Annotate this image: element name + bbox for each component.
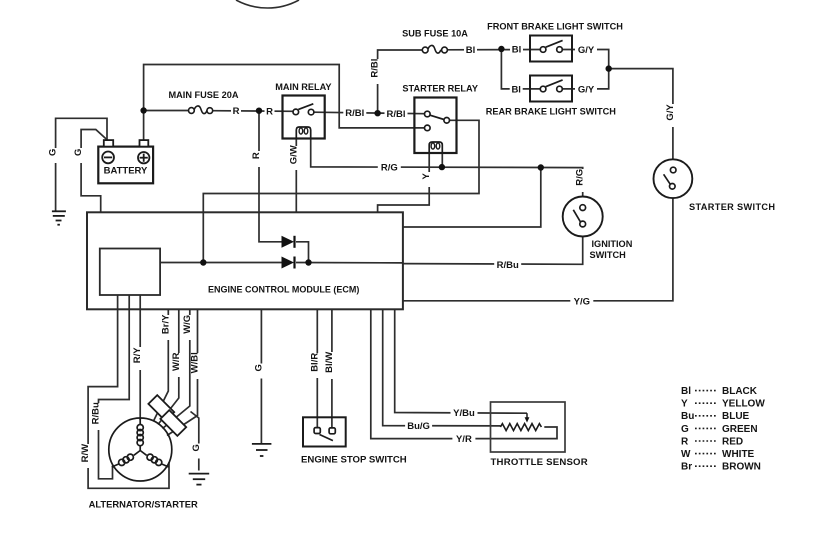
- label R/Y rotated: [132, 347, 146, 370]
- wire battery positive node down to battery terminal: [143, 111, 145, 141]
- svg-text:R/Bu: R/Bu: [497, 260, 519, 271]
- svg-text:R: R: [233, 106, 240, 117]
- label R/Bl left: [343, 107, 366, 119]
- switch FRONT BRAKE LIGHT SWITCH: [530, 36, 572, 62]
- wire R vertical from fuse node down into ECM to upper diode: [259, 111, 282, 242]
- svg-text:G: G: [681, 424, 689, 435]
- node diode output junction: [305, 259, 311, 265]
- wire W/Bl ECM to alternator connector: [167, 310, 198, 436]
- svg-text:G/Y: G/Y: [665, 104, 676, 121]
- wire R/G junction down to ECM right edge: [403, 168, 541, 228]
- fuse MAIN FUSE 20A: [189, 106, 213, 114]
- wire lower diode output to R/Bu exit: [296, 262, 403, 264]
- svg-text:Br: Br: [681, 462, 692, 473]
- svg-text:Bl: Bl: [512, 45, 522, 56]
- label R on main line right: [265, 105, 275, 117]
- svg-text:BROWN: BROWN: [722, 462, 761, 473]
- wire Bl sub fuse to front brake light switch: [447, 49, 540, 51]
- svg-text:G: G: [191, 444, 202, 451]
- wire R/Bu inner box to alternator lower left: [99, 295, 130, 479]
- wire Bl/R ECM to engine stop switch: [316, 310, 318, 428]
- label W/Bl rotated: [190, 352, 204, 379]
- label Br/Y rotated: [160, 314, 174, 340]
- connector block to alternator (two halves): [148, 395, 186, 436]
- node battery positive junction: [140, 107, 146, 113]
- label W/R rotated: [171, 352, 185, 377]
- svg-text:R/Bl: R/Bl: [387, 109, 406, 120]
- label THROTTLE SENSOR: [491, 457, 588, 468]
- wire ECM diode line inside module: [160, 262, 281, 264]
- wire R main fuse to main relay: [213, 110, 294, 113]
- wire W/G ECM to alternator connector: [163, 310, 190, 429]
- switch IGNITION SWITCH: [563, 197, 603, 237]
- svg-text:Bu/G: Bu/G: [407, 421, 430, 432]
- svg-text:G: G: [73, 149, 84, 156]
- svg-text:ALTERNATOR/STARTER: ALTERNATOR/STARTER: [89, 499, 198, 510]
- ground G wire from ECM: [252, 444, 272, 456]
- svg-text:WHITE: WHITE: [722, 449, 755, 460]
- svg-text:MAIN FUSE 20A: MAIN FUSE 20A: [169, 90, 239, 100]
- svg-text:R/G: R/G: [381, 162, 398, 173]
- diode D2 lower in ECM: [282, 257, 295, 269]
- label MAIN FUSE 20A: [169, 90, 239, 100]
- wire Y starter relay coil to ECM top: [378, 153, 430, 212]
- label STARTER RELAY: [402, 83, 478, 93]
- sub-block inside ECM: [100, 249, 160, 296]
- svg-text:G/Y: G/Y: [578, 85, 595, 96]
- svg-text:FRONT BRAKE LIGHT SWITCH: FRONT BRAKE LIGHT SWITCH: [487, 22, 623, 32]
- wire battery positive node to main fuse: [144, 110, 189, 112]
- label Bu/G horizontal: [405, 420, 432, 432]
- svg-text:Bu: Bu: [681, 411, 694, 422]
- svg-text:IGNITION: IGNITION: [592, 239, 633, 249]
- svg-text:SUB FUSE 10A: SUB FUSE 10A: [402, 29, 468, 39]
- sensor THROTTLE SENSOR: [491, 402, 566, 452]
- label R/Bu horizontal: [494, 259, 521, 271]
- svg-text:Bl: Bl: [681, 386, 691, 397]
- node R/G junction to ignition branch: [538, 164, 544, 170]
- wire R/Y inner box to alternator top: [139, 295, 141, 420]
- label REAR BRAKE LIGHT SWITCH: [486, 107, 617, 117]
- wire Bl junction down to rear brake light switch: [501, 49, 540, 89]
- node Bl junction at brake switches: [498, 46, 504, 52]
- label ENGINE CONTROL MODULE (ECM): [208, 285, 359, 295]
- wire G/Y junction to starter switch: [609, 69, 673, 160]
- label G rotated battery ground wire: [48, 148, 62, 163]
- label STARTER SWITCH: [689, 202, 775, 212]
- label W/G rotated: [182, 315, 196, 340]
- svg-text:ENGINE STOP SWITCH: ENGINE STOP SWITCH: [301, 455, 407, 466]
- svg-text:GREEN: GREEN: [722, 424, 758, 435]
- wire upper diode output down to junction: [296, 242, 309, 263]
- diode D1 upper in ECM: [282, 236, 295, 248]
- label R/Bl right: [385, 108, 408, 120]
- wire R/W inner box to alternator underside: [88, 295, 169, 488]
- label G rotated connector ground: [191, 444, 205, 459]
- label ENGINE STOP SWITCH: [301, 455, 407, 466]
- label Y/R horizontal: [452, 433, 475, 445]
- svg-text:Y/Bu: Y/Bu: [453, 408, 475, 419]
- label Bl front switch: [510, 44, 523, 56]
- svg-text:BLACK: BLACK: [722, 386, 758, 397]
- svg-text:SWITCH: SWITCH: [590, 250, 627, 260]
- svg-text:R/W: R/W: [80, 444, 91, 463]
- svg-text:R: R: [251, 152, 262, 159]
- svg-text:R/Y: R/Y: [132, 347, 143, 364]
- svg-text:R/G: R/G: [575, 169, 586, 186]
- label Y rotated: [421, 172, 435, 187]
- label IGNITION SWITCH: [590, 239, 633, 260]
- label G/Y front: [575, 44, 597, 56]
- svg-text:STARTER SWITCH: STARTER SWITCH: [689, 202, 775, 212]
- svg-text:G/Y: G/Y: [578, 45, 595, 56]
- svg-text:G: G: [253, 364, 264, 371]
- wire starter relay output to ECM diode junction: [203, 120, 479, 262]
- svg-text:YELLOW: YELLOW: [722, 399, 765, 410]
- svg-text:Y: Y: [421, 172, 432, 179]
- svg-text:STARTER RELAY: STARTER RELAY: [402, 83, 478, 93]
- svg-text:BLUE: BLUE: [722, 411, 750, 422]
- wire Y/R ECM to throttle sensor: [371, 310, 557, 439]
- label ALTERNATOR/STARTER: [89, 499, 198, 510]
- label Y/G horizontal: [570, 295, 593, 307]
- svg-text:G/W: G/W: [288, 145, 299, 164]
- svg-text:R/Bl: R/Bl: [370, 59, 381, 78]
- label Bl/R rotated: [309, 353, 323, 378]
- wire G/Y rear brake switch up to junction: [562, 69, 608, 89]
- label R on main line left: [231, 105, 241, 117]
- label R rotated: [251, 151, 265, 167]
- svg-text:R: R: [266, 106, 273, 117]
- label R/G rotated: [575, 169, 589, 192]
- wire G/W main relay coil to ECM top: [295, 139, 297, 213]
- node R/Bl junction: [374, 110, 380, 116]
- alternator ALTERNATOR/STARTER: [109, 418, 172, 481]
- label R/G horizontal: [378, 161, 401, 173]
- svg-text:W: W: [681, 449, 691, 460]
- wire starter relay coil right pin to R/G junction: [441, 153, 443, 167]
- svg-text:Bl/R: Bl/R: [309, 353, 320, 372]
- wire R/Bl vertical up to sub fuse line: [378, 50, 423, 113]
- svg-text:W/Bl: W/Bl: [190, 352, 201, 373]
- label R/W rotated: [80, 444, 94, 468]
- fuse SUB FUSE 10A: [422, 45, 447, 53]
- wire R/G main relay coil to ignition switch: [311, 139, 583, 205]
- svg-text:Y/G: Y/G: [574, 296, 590, 307]
- label R/Bu rotated: [91, 402, 105, 430]
- wire battery positive to top rail and down to starter relay lower contact: [144, 65, 425, 128]
- svg-text:MAIN RELAY: MAIN RELAY: [275, 82, 331, 92]
- ground alternator connector G lead: [189, 474, 210, 485]
- label FRONT BRAKE LIGHT SWITCH: [487, 22, 623, 32]
- switch REAR BRAKE LIGHT SWITCH: [530, 76, 572, 102]
- relay MAIN RELAY: [283, 96, 325, 139]
- label SUB FUSE 10A: [402, 29, 468, 39]
- relay STARTER RELAY: [414, 98, 456, 154]
- wire Y/Bu ECM to throttle sensor wiper: [395, 310, 527, 414]
- battery BATTERY: [98, 140, 153, 183]
- partial circle component cut off at top edge: [236, 0, 299, 8]
- label G/Y rotated: [665, 104, 679, 127]
- wire G battery negative to ECM top: [81, 130, 108, 213]
- legend wire colour code: [681, 386, 765, 473]
- ground battery negative: [52, 211, 66, 224]
- svg-text:Y: Y: [681, 399, 688, 410]
- wire R/Bl main relay to starter relay: [314, 112, 425, 114]
- label R/Bl rotated: [370, 59, 384, 84]
- svg-text:R/Bu: R/Bu: [91, 402, 102, 424]
- wire G ECM to ground: [260, 310, 262, 444]
- label Bl/W rotated: [324, 352, 338, 379]
- svg-text:THROTTLE SENSOR: THROTTLE SENSOR: [491, 457, 588, 468]
- svg-text:Bl: Bl: [466, 45, 476, 56]
- svg-text:Br/Y: Br/Y: [160, 314, 171, 334]
- svg-text:Y/R: Y/R: [456, 434, 472, 445]
- label MAIN RELAY: [275, 82, 331, 92]
- node diode input junction: [200, 259, 206, 265]
- switch ENGINE STOP SWITCH: [303, 417, 346, 446]
- wire G battery negative to ground: [56, 118, 107, 211]
- wire G/Y front brake switch to junction: [562, 50, 608, 69]
- label G/W rotated: [288, 145, 302, 170]
- wire Bu/G ECM to throttle sensor: [383, 310, 501, 426]
- label G/Y rear: [575, 84, 597, 96]
- label Bl sub fuse: [464, 44, 477, 56]
- node G/Y junction: [606, 65, 612, 71]
- svg-text:Bl: Bl: [511, 84, 521, 95]
- svg-text:G: G: [48, 149, 59, 156]
- label Bl rear switch: [510, 83, 523, 95]
- svg-text:BATTERY: BATTERY: [104, 165, 148, 176]
- wire R/Bu ignition switch to ECM right edge: [403, 227, 583, 265]
- label G rotated battery to ECM wire: [73, 148, 87, 163]
- module ENGINE CONTROL MODULE (ECM) box: [87, 212, 403, 309]
- wire Bl/W ECM to engine stop switch: [331, 310, 333, 428]
- node R/G junction at starter relay coil: [439, 164, 445, 170]
- node R junction at main relay input: [256, 108, 262, 114]
- wire Y/G starter switch to ECM right edge: [403, 198, 673, 301]
- svg-text:R/Bl: R/Bl: [345, 108, 364, 119]
- svg-text:W/R: W/R: [171, 352, 182, 371]
- label Y/Bu horizontal: [451, 407, 478, 419]
- svg-text:W/G: W/G: [182, 315, 193, 334]
- wire Br/Y ECM to alternator connector: [154, 310, 169, 422]
- svg-text:REAR BRAKE LIGHT SWITCH: REAR BRAKE LIGHT SWITCH: [486, 107, 617, 117]
- wire W/R ECM to alternator connector: [158, 310, 179, 425]
- svg-text:R: R: [681, 436, 689, 447]
- switch STARTER SWITCH: [654, 159, 693, 198]
- svg-text:Bl/W: Bl/W: [324, 352, 335, 373]
- label G rotated mid: [253, 364, 267, 379]
- svg-text:RED: RED: [722, 436, 743, 447]
- wire G connector lead to ground: [191, 412, 199, 471]
- svg-text:ENGINE CONTROL MODULE (ECM): ENGINE CONTROL MODULE (ECM): [208, 285, 359, 295]
